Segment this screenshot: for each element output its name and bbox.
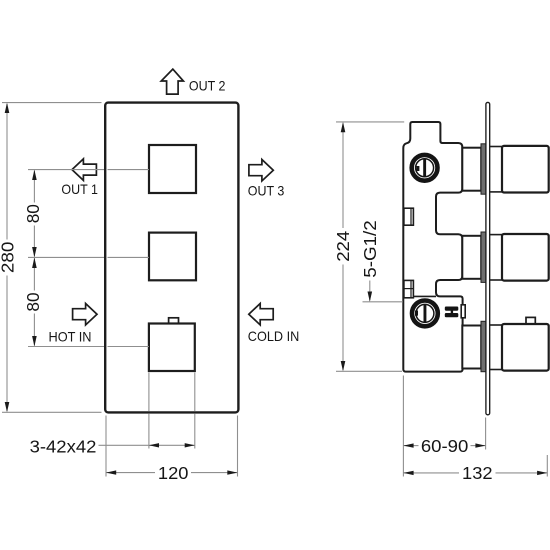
svg-text:OUT 3: OUT 3 [248,183,285,199]
svg-text:80: 80 [23,292,43,311]
svg-text:224: 224 [333,230,353,261]
svg-text:3-42x42: 3-42x42 [30,436,97,456]
svg-text:80: 80 [23,204,43,223]
svg-text:OUT 2: OUT 2 [189,78,226,94]
svg-text:120: 120 [158,463,189,483]
svg-text:132: 132 [462,463,493,483]
svg-text:OUT 1: OUT 1 [61,181,98,197]
svg-text:60-90: 60-90 [421,436,469,456]
svg-text:HOT IN: HOT IN [49,329,92,345]
svg-text:COLD IN: COLD IN [248,328,299,344]
svg-text:280: 280 [0,242,17,274]
svg-text:5-G1/2: 5-G1/2 [360,220,380,278]
